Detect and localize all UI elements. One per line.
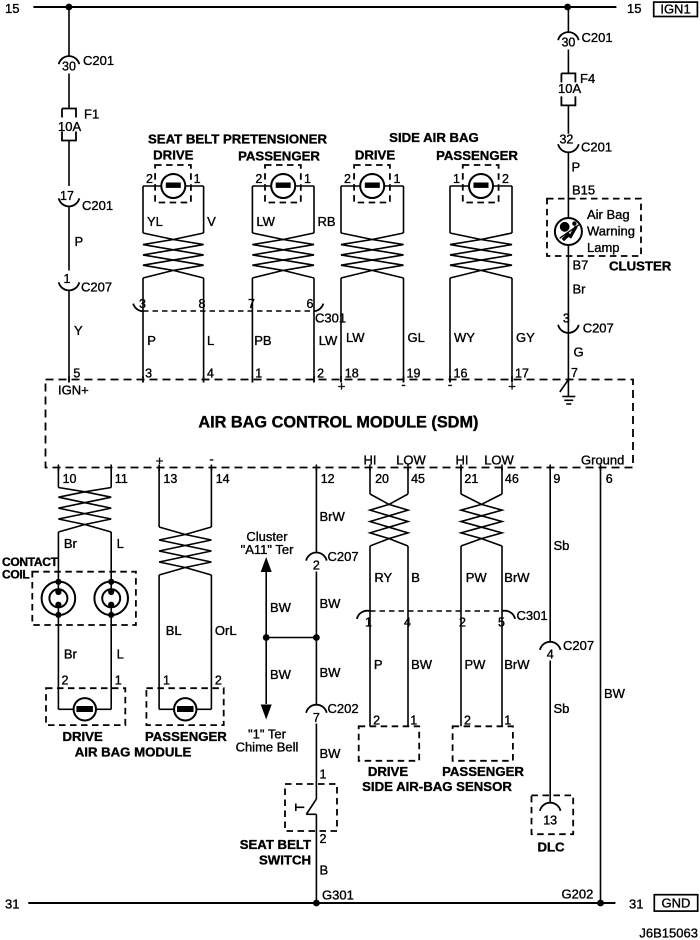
svg-text:Warning: Warning — [587, 224, 635, 239]
svg-text:C207: C207 — [563, 638, 594, 653]
connector C301 right hook (pin 6) — [314, 304, 323, 312]
squib pretensioner passenger igniter — [271, 174, 295, 198]
svg-text:B: B — [320, 863, 329, 878]
svg-text:2: 2 — [502, 172, 509, 186]
svg-text:SEAT BELT: SEAT BELT — [240, 837, 311, 852]
svg-text:7: 7 — [248, 297, 255, 311]
svg-text:G: G — [574, 345, 584, 360]
arrow to cluster A11 terminal — [261, 557, 272, 572]
svg-text:Br: Br — [64, 647, 78, 662]
svg-text:4: 4 — [207, 367, 214, 381]
svg-text:SIDE AIR BAG: SIDE AIR BAG — [389, 130, 479, 145]
wire junction tie — [266, 637, 316, 639]
wire right lead — [203, 186, 205, 233]
wire from fuse F1 to connector C201-17 — [68, 141, 70, 187]
svg-text:1: 1 — [255, 367, 262, 381]
svg-text:PASSENGER: PASSENGER — [442, 764, 524, 779]
pin stub (bottom edge) — [460, 465, 462, 472]
net tag GND — [654, 895, 697, 911]
node junction G301 — [313, 900, 320, 907]
wire PB to SDM — [251, 311, 253, 383]
svg-text:RB: RB — [318, 214, 336, 229]
wire SDM pin 6 to ground bus — [600, 468, 602, 904]
svg-text:SWITCH: SWITCH — [259, 853, 311, 868]
wire L to SDM — [203, 311, 205, 383]
svg-text:P: P — [572, 160, 581, 175]
svg-text:17: 17 — [515, 367, 529, 381]
svg-text:4: 4 — [547, 648, 554, 662]
driver air bag module dashed box — [46, 688, 125, 725]
svg-text:V: V — [207, 214, 216, 229]
svg-text:2: 2 — [317, 367, 324, 381]
svg-text:11: 11 — [115, 472, 128, 486]
svg-text:PB: PB — [254, 333, 271, 348]
svg-text:1: 1 — [304, 172, 311, 186]
air bag warning lamp icon — [560, 222, 570, 232]
svg-text:3: 3 — [145, 367, 152, 381]
twisted pair side air bag drive — [341, 233, 404, 278]
svg-text:2: 2 — [313, 559, 320, 573]
wire BW to C202 — [315, 638, 317, 705]
node junction top-left — [66, 4, 73, 11]
wire 31 ground bus (bottom) — [28, 902, 615, 904]
svg-text:BW: BW — [604, 686, 626, 701]
svg-text:OrL: OrL — [215, 623, 237, 638]
twisted pair passenger side sensor — [461, 494, 502, 546]
svg-text:2: 2 — [146, 172, 153, 186]
svg-text:5: 5 — [73, 367, 80, 381]
node junction chime wire — [313, 634, 320, 641]
svg-text:1: 1 — [394, 172, 401, 186]
ground symbol inside SDM (pin 7) — [567, 380, 569, 397]
svg-text:F4: F4 — [580, 71, 595, 86]
wire 15 ignition bus (top) — [33, 6, 616, 8]
svg-text:PASSENGER: PASSENGER — [145, 729, 227, 744]
wire from fuse F4 to connector C201-32 — [567, 105, 569, 133]
svg-text:IGN+: IGN+ — [58, 383, 89, 398]
svg-text:31: 31 — [629, 897, 643, 912]
wire BrW to sensor — [501, 611, 503, 726]
svg-text:C207: C207 — [328, 549, 359, 564]
svg-text:IGN1: IGN1 — [660, 2, 690, 17]
twisted pair pretensioner drive — [143, 233, 204, 278]
twisted pair driver air bag — [58, 488, 111, 533]
pin stub (bottom edge) — [110, 465, 112, 472]
svg-text:10A: 10A — [558, 81, 581, 96]
wire L to contact coil — [110, 532, 112, 581]
svg-text:Sb: Sb — [554, 538, 570, 553]
svg-text:DRIVE: DRIVE — [62, 729, 103, 744]
svg-text:"A11" Ter: "A11" Ter — [241, 542, 295, 557]
svg-text:B: B — [411, 570, 420, 585]
svg-text:BL: BL — [166, 623, 182, 638]
svg-text:LOW: LOW — [396, 453, 426, 468]
wire LW to SDM — [313, 311, 315, 383]
squib side air bag passenger igniter — [469, 174, 493, 198]
svg-text:C201: C201 — [581, 140, 612, 155]
svg-text:C207: C207 — [81, 280, 112, 295]
wire BL down — [158, 575, 160, 709]
wire right lead — [403, 186, 405, 233]
svg-text:G202: G202 — [562, 887, 594, 902]
wire SDM pin 46 down — [501, 468, 503, 495]
wire to connector C301 — [313, 278, 315, 311]
svg-text:1: 1 — [163, 674, 170, 688]
driver side air bag sensor dashed box — [359, 726, 420, 761]
svg-text:GL: GL — [408, 330, 425, 345]
wire SDM pin 14 down — [210, 468, 212, 528]
pin stub (top edge) — [511, 376, 513, 383]
svg-text:PW: PW — [465, 657, 487, 672]
svg-text:46: 46 — [505, 472, 519, 486]
wire Br to driver air bag module — [57, 615, 59, 709]
svg-text:2: 2 — [255, 172, 262, 186]
svg-text:31: 31 — [5, 897, 19, 912]
wire SDM pin 21 down — [460, 468, 462, 495]
svg-text:16: 16 — [454, 367, 468, 381]
svg-text:DRIVE: DRIVE — [355, 148, 396, 163]
svg-text:J6B15063: J6B15063 — [639, 926, 698, 940]
svg-text:BrW: BrW — [320, 509, 346, 524]
wire P to connector C207-1 — [68, 207, 70, 271]
wire LW to SDM pin 18 — [340, 278, 342, 383]
svg-text:AIR BAG CONTROL MODULE (SDM): AIR BAG CONTROL MODULE (SDM) — [198, 414, 478, 432]
svg-text:2: 2 — [459, 616, 466, 630]
svg-text:GY: GY — [516, 330, 535, 345]
svg-text:3: 3 — [563, 312, 570, 326]
svg-text:P: P — [75, 234, 84, 249]
svg-text:YL: YL — [147, 214, 163, 229]
pin stub (top edge) — [68, 376, 70, 383]
svg-text:21: 21 — [464, 472, 478, 486]
pin stub (bottom edge) — [315, 465, 317, 472]
svg-text:PASSENGER: PASSENGER — [436, 148, 518, 163]
svg-text:Y: Y — [74, 323, 83, 338]
wire SDM pin 9 down — [549, 468, 551, 642]
svg-text:Ground: Ground — [581, 453, 624, 468]
pin stub (top edge) — [340, 376, 342, 383]
svg-text:G301: G301 — [322, 888, 354, 903]
svg-text:L: L — [117, 647, 124, 662]
svg-text:LW: LW — [256, 214, 275, 229]
wire left lead — [251, 186, 253, 233]
wire left lead — [449, 186, 451, 233]
wire BW to seat belt switch — [315, 724, 317, 800]
wire from switch to ground bus — [315, 814, 317, 903]
svg-text:P: P — [374, 657, 383, 672]
svg-text:C207: C207 — [583, 321, 614, 336]
wire cluster branch — [265, 572, 267, 704]
wire to connector C301 — [203, 278, 205, 311]
passenger side air bag sensor dashed box — [453, 726, 513, 761]
pin stub (top edge) — [313, 376, 315, 383]
wire P to SDM — [142, 311, 144, 383]
svg-text:RY: RY — [374, 570, 392, 585]
squib side air bag drive igniter — [360, 174, 384, 198]
svg-text:DLC: DLC — [537, 840, 565, 855]
svg-text:Br: Br — [64, 536, 78, 551]
connector C301 left hook (pin 3) — [133, 304, 142, 312]
svg-text:2: 2 — [215, 674, 222, 688]
pin stub (bottom edge) — [57, 465, 59, 472]
svg-text:6: 6 — [307, 297, 314, 311]
svg-text:30: 30 — [561, 36, 575, 50]
contact coil dashed box — [32, 572, 136, 625]
svg-text:P: P — [147, 333, 156, 348]
svg-text:Sb: Sb — [554, 701, 570, 716]
squib pretensioner drive (dashed box) — [155, 165, 191, 203]
wire GY to SDM pin 17 — [511, 278, 513, 383]
svg-text:-: - — [209, 452, 213, 467]
wire P to cluster — [567, 152, 569, 218]
svg-text:10: 10 — [63, 472, 77, 486]
svg-text:13: 13 — [543, 814, 557, 828]
connector DLC pin 13 — [540, 803, 561, 811]
svg-text:L: L — [117, 536, 124, 551]
twisted pair side air bag passenger — [450, 233, 512, 278]
wire GL to SDM pin 19 — [403, 278, 405, 383]
connector C301 (pretensioners) dashed line — [143, 310, 314, 312]
connector C201 pin 30 (right) — [558, 32, 579, 40]
svg-text:1: 1 — [320, 768, 327, 782]
svg-text:LW: LW — [346, 330, 365, 345]
wire SDM pin 10 down — [57, 468, 59, 488]
pin stub (bottom edge) — [501, 465, 503, 472]
svg-text:2: 2 — [62, 674, 69, 688]
twisted pair driver side sensor — [370, 494, 408, 546]
svg-text:Air Bag: Air Bag — [587, 207, 630, 222]
svg-text:SIDE AIR-BAG SENSOR: SIDE AIR-BAG SENSOR — [362, 779, 512, 794]
svg-text:Lamp: Lamp — [587, 240, 620, 255]
connector C301 left hook (sensors) — [357, 611, 370, 619]
wire B down — [407, 546, 409, 611]
svg-text:PASSENGER: PASSENGER — [238, 149, 320, 164]
wire right lead — [511, 186, 513, 233]
driver air bag squib — [74, 698, 96, 720]
svg-text:BW: BW — [270, 600, 292, 615]
svg-text:30: 30 — [62, 60, 76, 74]
arrow to chime bell terminal 1 — [261, 705, 272, 720]
svg-text:GND: GND — [662, 896, 691, 911]
svg-text:7: 7 — [313, 711, 320, 725]
svg-text:WY: WY — [454, 330, 475, 345]
wire SDM pin 13 down — [158, 468, 160, 528]
node junction G202 — [597, 900, 604, 907]
svg-text:BW: BW — [411, 657, 433, 672]
connector C201 pin 30 — [59, 56, 80, 64]
svg-text:AIR BAG MODULE: AIR BAG MODULE — [75, 745, 192, 760]
pin stub (bottom edge) — [549, 465, 551, 472]
node junction cluster branch — [263, 634, 270, 641]
svg-text:2: 2 — [344, 172, 351, 186]
svg-text:PW: PW — [466, 570, 488, 585]
connector C207 pin 2 — [306, 553, 327, 561]
svg-text:3: 3 — [139, 297, 146, 311]
pin stub (top edge) — [203, 376, 205, 383]
svg-text:HI: HI — [456, 453, 469, 468]
svg-text:18: 18 — [345, 367, 359, 381]
squib side air bag drive (dashed box) — [354, 165, 390, 203]
wire SDM pin 12 down — [315, 468, 317, 553]
svg-text:1: 1 — [115, 674, 122, 688]
passenger air bag squib — [174, 698, 196, 720]
svg-text:9: 9 — [553, 472, 560, 486]
connector C202 pin 7 — [306, 705, 327, 713]
svg-text:32: 32 — [559, 133, 573, 147]
contact coil slip ring right — [94, 582, 128, 616]
module box AIR BAG CONTROL MODULE (SDM) — [46, 380, 634, 468]
svg-text:BW: BW — [320, 665, 342, 680]
svg-text:C202: C202 — [328, 701, 359, 716]
wire left lead — [340, 186, 342, 233]
wire BW to sensor — [407, 611, 409, 726]
fuse F1 10A — [62, 109, 76, 141]
svg-text:Chime Bell: Chime Bell — [236, 740, 299, 755]
pin stub (bottom edge) — [407, 465, 409, 472]
node junction top-right — [564, 4, 571, 11]
svg-text:C301: C301 — [517, 608, 548, 623]
svg-text:BW: BW — [320, 746, 342, 761]
svg-text:1: 1 — [365, 616, 372, 630]
svg-text:6: 6 — [606, 472, 613, 486]
svg-text:17: 17 — [60, 189, 74, 203]
pin stub (top edge) — [449, 376, 451, 383]
svg-text:19: 19 — [407, 367, 421, 381]
seat belt switch dashed box — [285, 784, 337, 831]
wire from bus to connector C201-30 (right) — [567, 7, 569, 32]
svg-text:15: 15 — [627, 1, 641, 16]
pin stub (bottom edge) — [210, 465, 212, 472]
pin stub (bottom edge) — [600, 465, 602, 472]
wire to fuse F4 — [567, 50, 569, 74]
squib pretensioner passenger (dashed box) — [265, 165, 301, 203]
wire Sb to DLC — [549, 661, 551, 803]
svg-text:DRIVE: DRIVE — [153, 148, 194, 163]
svg-text:8: 8 — [199, 297, 206, 311]
svg-text:14: 14 — [216, 472, 230, 486]
wire WY to SDM pin 16 — [449, 278, 451, 383]
svg-text:C201: C201 — [83, 53, 114, 68]
contact coil slip ring left — [42, 582, 76, 616]
pin stub (top edge) — [403, 376, 405, 383]
wire PW to sensor — [460, 611, 462, 726]
svg-text:45: 45 — [411, 472, 425, 486]
svg-text:BW: BW — [320, 596, 342, 611]
wire left lead — [142, 186, 144, 233]
pin stub (top edge) — [251, 376, 253, 383]
svg-text:20: 20 — [375, 472, 389, 486]
air bag warning lamp — [555, 218, 582, 245]
svg-text:2: 2 — [320, 832, 327, 846]
net tag IGN1 — [654, 2, 698, 16]
seat belt switch contacts — [306, 799, 316, 814]
fuse F4 10A — [561, 73, 575, 105]
twisted pair passenger air bag — [159, 527, 211, 575]
cluster dashed box — [547, 199, 641, 256]
wire OrL down — [210, 575, 212, 709]
wire to fuse F1 — [68, 74, 70, 109]
svg-text:12: 12 — [321, 472, 335, 486]
connector C301 (sensors) dashed line — [370, 610, 502, 612]
connector C207 pin 4 — [540, 642, 561, 650]
wire to connector C301 — [251, 278, 253, 311]
pin stub (bottom edge) — [158, 465, 160, 472]
wire SDM pin 20 down — [369, 468, 371, 495]
svg-text:1: 1 — [194, 172, 201, 186]
svg-text:10A: 10A — [58, 119, 81, 134]
svg-text:C201: C201 — [82, 198, 113, 213]
wire right lead — [313, 186, 315, 233]
twisted pair pretensioner passenger — [252, 233, 314, 278]
wire SDM pin 11 down — [110, 468, 112, 488]
DLC dashed box — [532, 795, 574, 834]
svg-text:COIL: COIL — [2, 568, 29, 582]
wire SDM pin 45 down — [407, 468, 409, 495]
svg-text:C201: C201 — [582, 30, 613, 45]
wire RY down — [369, 546, 371, 611]
svg-text:1: 1 — [453, 172, 460, 186]
svg-text:15: 15 — [5, 1, 19, 16]
wire L to driver air bag module — [110, 615, 112, 709]
svg-text:B15: B15 — [572, 183, 595, 198]
svg-text:BrW: BrW — [504, 570, 530, 585]
svg-text:LW: LW — [319, 333, 338, 348]
squib side air bag passenger (dashed box) — [463, 165, 499, 203]
connector C301 right hook (sensors) — [502, 611, 515, 619]
wire Br to contact coil — [57, 532, 59, 581]
svg-text:1: 1 — [64, 272, 71, 286]
passenger air bag module dashed box — [146, 688, 223, 725]
wire BW to junction — [315, 572, 317, 638]
wire Y to SDM pin 5 — [68, 291, 70, 383]
svg-text:L: L — [207, 333, 214, 348]
svg-text:B7: B7 — [573, 258, 589, 273]
svg-text:Br: Br — [573, 282, 587, 297]
squib pretensioner drive igniter — [161, 174, 185, 198]
svg-text:LOW: LOW — [484, 453, 514, 468]
wire to connector C301 — [142, 278, 144, 311]
svg-text:F1: F1 — [84, 107, 99, 122]
svg-text:7: 7 — [571, 366, 578, 380]
wire from bus to connector C201-30 — [68, 7, 70, 56]
pin stub (bottom edge) — [369, 465, 371, 472]
pin stub (top edge) — [142, 376, 144, 383]
svg-text:DRIVE: DRIVE — [368, 764, 409, 779]
svg-text:SEAT BELT PRETENSIONER: SEAT BELT PRETENSIONER — [148, 132, 327, 147]
wire PW down — [460, 546, 462, 611]
svg-text:BrW: BrW — [504, 657, 530, 672]
svg-text:13: 13 — [163, 472, 177, 486]
wire P to sensor — [369, 611, 371, 726]
svg-text:CLUSTER: CLUSTER — [609, 259, 672, 274]
wire from lamp to SDM pin 7 — [567, 245, 569, 383]
svg-text:BW: BW — [270, 667, 292, 682]
wire BrW down — [501, 546, 503, 611]
